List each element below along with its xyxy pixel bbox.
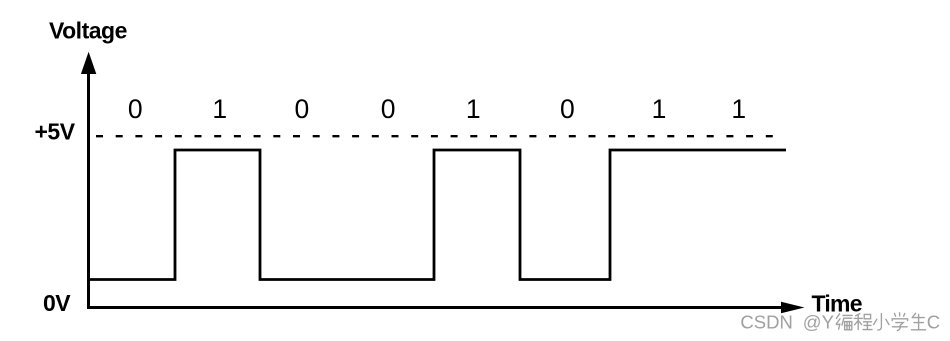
svg-text:@Y: @Y [803,312,834,333]
svg-text:Voltage: Voltage [49,18,127,44]
svg-text:0V: 0V [43,290,71,316]
glyph xue [892,313,907,331]
svg-text:1: 1 [466,94,481,124]
svg-text:1: 1 [212,94,227,124]
x-axis arrowhead [781,302,805,313]
glyph bian [836,314,852,330]
watermark CJK glyphs (drawn approximations) [836,313,925,331]
svg-text:1: 1 [652,94,667,124]
svg-text:0: 0 [381,94,396,124]
svg-text:+5V: +5V [35,118,76,144]
svg-text:0: 0 [295,94,310,124]
digital signal waveform [88,150,786,280]
svg-text:CSDN: CSDN [740,312,792,333]
+5V dashed reference line [96,135,775,137]
svg-text:C: C [927,312,940,333]
glyph sheng [911,313,925,330]
svg-text:0: 0 [560,94,575,124]
glyph cheng [854,314,872,330]
svg-text:1: 1 [731,94,746,124]
svg-text:0: 0 [128,94,143,124]
glyph xiao [874,313,889,330]
x-axis (Time axis) [87,306,782,309]
y-axis (Voltage axis) [87,73,90,307]
y-axis arrowhead [81,52,96,74]
